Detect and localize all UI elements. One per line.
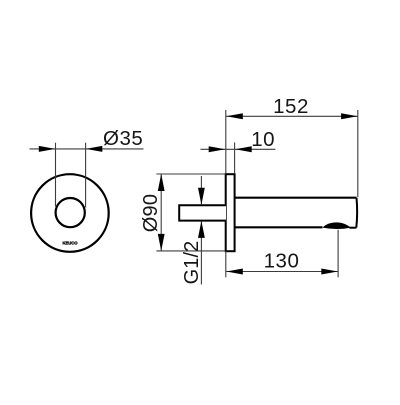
dim O35 dimension line — [30, 148, 144, 150]
dim G1/2 arrow up — [198, 221, 205, 238]
dim 10 dimension line — [201, 148, 276, 150]
spout base inner circle (front view, O35) — [56, 198, 85, 227]
dim 130 arrow right — [321, 269, 338, 275]
dim 10 arrow right — [235, 146, 252, 152]
aerator outlet crescent — [323, 222, 351, 229]
dim O90 extension line top — [156, 173, 225, 175]
dim O35 arrow right — [86, 146, 103, 152]
spout tube right end edge — [355, 198, 358, 228]
dim O90 dimension line — [160, 174, 162, 251]
flange plate (side view) — [226, 174, 235, 251]
dim 130 extension line right — [337, 230, 339, 277]
dim G1/2 leader line lower — [200, 221, 202, 284]
dim O90 arrow bottom — [158, 234, 165, 251]
dim O35 extension line left — [55, 143, 57, 207]
spout tube top edge — [235, 197, 357, 199]
dim 152 dimension line — [226, 115, 358, 117]
dim 10 arrow left — [209, 146, 226, 152]
dim O35 arrow left — [39, 146, 56, 152]
dim 130 dimension line — [226, 271, 338, 273]
spout outlet bottom segment right — [350, 227, 357, 229]
spout tube bottom edge — [235, 226, 323, 228]
dim 130 extension line left — [225, 251, 227, 277]
dim 152 arrow left — [226, 113, 243, 119]
dim 152 extension line left — [225, 110, 227, 174]
dim 152 extension line right — [357, 110, 359, 197]
dim 130 arrow left — [226, 269, 243, 275]
dim O90 extension line bottom — [156, 250, 225, 252]
G1/2 connection stub — [179, 205, 226, 220]
dim O90 arrow top — [158, 174, 165, 191]
svg-text:130: 130 — [264, 250, 300, 273]
svg-text:Ø90: Ø90 — [140, 194, 162, 232]
dim 10 extension line right — [234, 143, 236, 174]
svg-text:KEUCO: KEUCO — [62, 240, 78, 245]
svg-text:152: 152 — [273, 95, 309, 118]
dim 152 arrow right — [341, 113, 358, 119]
escutcheon outer circle (front view, O90 wall plate) — [31, 174, 109, 252]
dim G1/2 leader line upper — [200, 176, 202, 204]
dim G1/2 arrow down — [198, 188, 205, 205]
svg-text:10: 10 — [251, 128, 275, 151]
svg-text:Ø35: Ø35 — [103, 127, 143, 150]
dim O35 extension line right — [85, 143, 87, 208]
svg-text:G1/2: G1/2 — [181, 241, 203, 285]
